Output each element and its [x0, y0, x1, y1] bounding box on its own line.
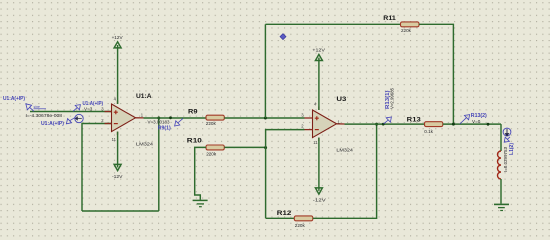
junction R11 drop	[452, 123, 455, 126]
svg-text:LM324: LM324	[336, 148, 353, 154]
wire feedback right riser	[158, 118, 160, 211]
current probe L1	[503, 128, 515, 172]
svg-text:LM324: LM324	[136, 141, 153, 147]
wire R11 to output node	[419, 24, 453, 124]
junction R11 branch	[264, 117, 267, 120]
svg-text:V=3: V=3	[84, 106, 93, 111]
junction R12 riser	[375, 123, 378, 126]
wire R12 right riser to output	[313, 124, 377, 218]
svg-text:220k: 220k	[295, 223, 306, 228]
svg-text:220k: 220k	[206, 152, 217, 157]
svg-text:-12V: -12V	[112, 174, 123, 179]
svg-text:U1:A(+IP): U1:A(+IP)	[41, 121, 64, 127]
probe dot R9(1)	[169, 116, 172, 119]
svg-text:-12V: -12V	[313, 198, 327, 203]
+12V power symbol U1	[112, 35, 124, 104]
junction R10 tee	[264, 146, 267, 149]
svg-text:R12: R12	[277, 210, 292, 217]
wire top run to R11	[265, 23, 400, 25]
ground left	[193, 200, 208, 206]
inductor L1	[498, 151, 501, 179]
current probe on U1:A pin2 corner	[75, 114, 83, 122]
voltage probe R13(2)	[460, 113, 487, 124]
svg-text:R9(1): R9(1)	[158, 126, 171, 132]
svg-text:V=3.00183: V=3.00183	[148, 120, 170, 125]
origin marker diamond	[280, 34, 286, 40]
svg-text:11: 11	[112, 137, 117, 142]
svg-text:R11: R11	[383, 15, 396, 22]
wire U1:A output to R9	[144, 117, 207, 119]
wire R10 left to ground	[195, 147, 206, 199]
svg-text:+12V: +12V	[112, 35, 124, 40]
svg-text:220k: 220k	[206, 121, 217, 126]
wire inductor top	[500, 124, 502, 151]
wire R11 left riser	[264, 24, 266, 118]
resistor R11	[401, 22, 420, 27]
svg-text:I=-4.30678e-008: I=-4.30678e-008	[26, 113, 63, 118]
ground right	[494, 204, 509, 210]
resistor R13	[425, 122, 443, 127]
svg-text:R9: R9	[188, 109, 198, 116]
wire U1:A pin2 to feedback left	[82, 124, 112, 212]
wire R13 to inductor corner	[443, 123, 501, 125]
voltage probe U1:A(+IP) V=3 on pin3 wire	[73, 101, 103, 112]
voltage probe R13(1) rotated labels	[384, 88, 395, 124]
svg-text:0.1k: 0.1k	[424, 129, 433, 134]
wire R12 left	[266, 217, 295, 219]
junction feedback to output	[157, 117, 160, 120]
svg-text:U1:A: U1:A	[136, 93, 152, 100]
svg-text:220k: 220k	[401, 28, 412, 33]
voltage probe input arrow	[26, 104, 46, 112]
svg-text:R10: R10	[187, 137, 202, 144]
wire R10 right to pin2 riser	[224, 146, 265, 148]
-12V power symbol U3	[313, 138, 327, 203]
voltage probe R9(1)	[148, 118, 184, 131]
svg-text:L1(2): L1(2)	[509, 143, 515, 155]
resistor R12	[294, 216, 313, 221]
svg-text:+12V: +12V	[312, 47, 326, 52]
+12V power symbol U3	[312, 47, 326, 110]
svg-text:11: 11	[313, 140, 318, 145]
probe dot R13(1)	[382, 123, 385, 126]
wire R9 to U3 pin 3	[224, 117, 304, 119]
resistor R10	[206, 145, 224, 150]
-12V power symbol U1	[112, 132, 123, 180]
op-amp U3	[305, 107, 345, 142]
svg-text:R13: R13	[407, 117, 421, 124]
svg-text:V=2.99685: V=2.99685	[389, 88, 394, 109]
svg-text:U1:A(+IP): U1:A(+IP)	[3, 96, 25, 102]
wire feedback bottom	[82, 210, 159, 212]
svg-text:I=0.0299753: I=0.0299753	[503, 147, 508, 172]
probe label U1:A(+IP) lower-left	[41, 118, 75, 127]
probe dot R13(2)	[487, 123, 490, 126]
op-amp U1:A	[105, 101, 144, 136]
wire U3 output to R13	[345, 123, 425, 125]
resistor R9	[206, 115, 224, 120]
wire input net to U1:A pin 3	[30, 111, 112, 113]
svg-text:sine: sine	[34, 105, 40, 109]
wire U3 pin2 riser down to R12	[266, 130, 305, 219]
wire inductor bottom	[500, 179, 502, 204]
svg-text:U3: U3	[336, 96, 346, 103]
svg-text:V=0: V=0	[472, 119, 481, 124]
